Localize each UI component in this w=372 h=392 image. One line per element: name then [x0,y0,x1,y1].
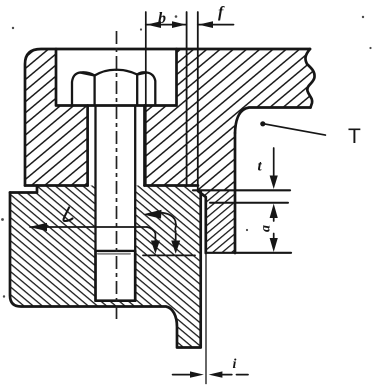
svg-text:b: b [158,10,166,27]
svg-text:a: a [259,225,274,232]
svg-text:T: T [348,125,361,148]
svg-text:i: i [233,357,237,372]
